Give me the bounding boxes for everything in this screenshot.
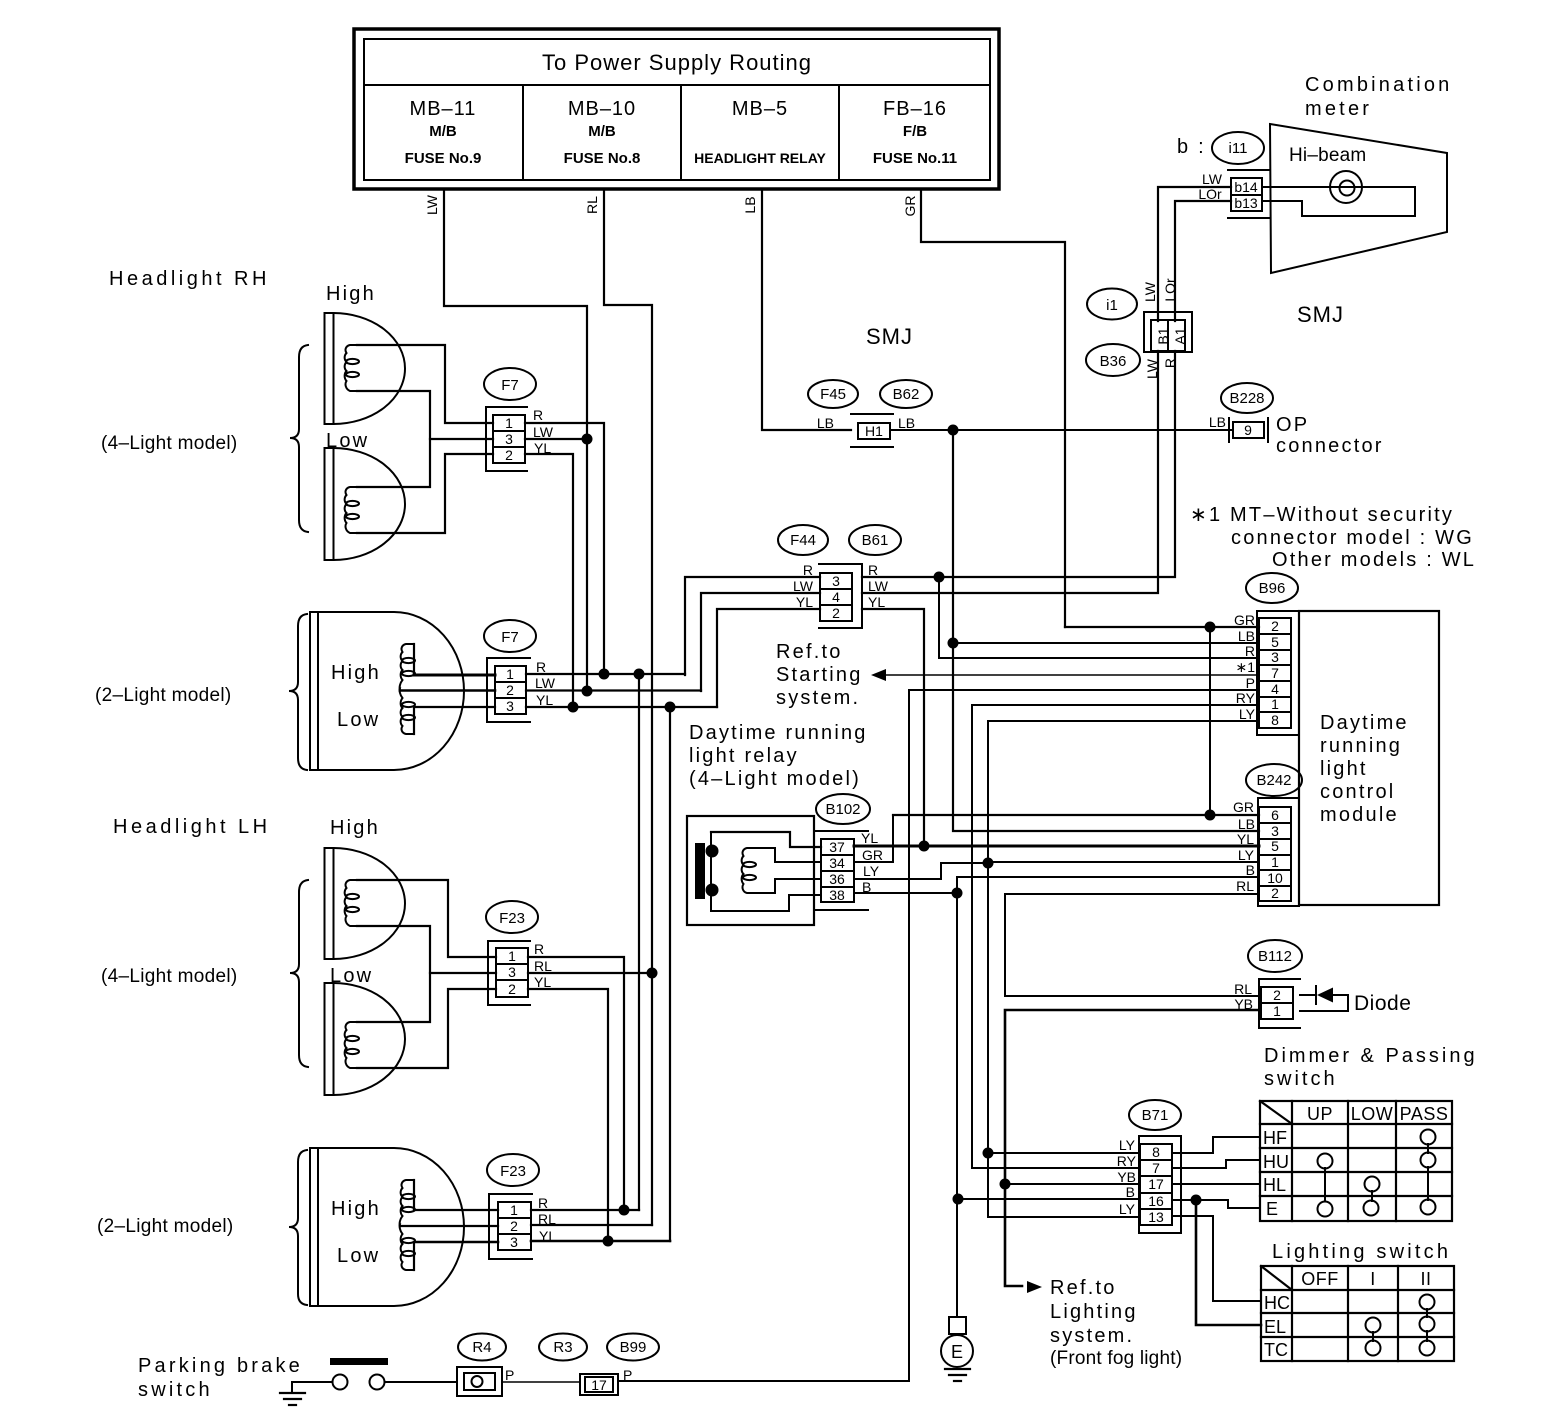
connector F23 housing (2-light LH) xyxy=(489,1194,532,1259)
svg-text:R: R xyxy=(1245,643,1255,659)
wire R4 to B99 xyxy=(502,1381,580,1383)
wire high top to F7 pin1 xyxy=(357,345,493,423)
svg-text:F7: F7 xyxy=(501,629,519,646)
svg-text:HC: HC xyxy=(1264,1293,1290,1313)
wire F7 pin3 LW to junction xyxy=(525,438,587,440)
svg-text:LY: LY xyxy=(1239,706,1256,722)
relay coil to pin 34 xyxy=(775,848,821,862)
headlight RH low reflector xyxy=(325,448,406,560)
svg-text:LW: LW xyxy=(1142,281,1158,302)
connector B99 box 17 xyxy=(580,1374,618,1395)
svg-text:Combination: Combination xyxy=(1305,74,1453,96)
svg-text:EL: EL xyxy=(1264,1317,1286,1337)
svg-text:OP: OP xyxy=(1276,414,1309,436)
svg-text:I: I xyxy=(1370,1269,1376,1289)
svg-text:4: 4 xyxy=(832,589,840,605)
svg-text:R4: R4 xyxy=(472,1339,491,1356)
svg-text:Low: Low xyxy=(337,709,380,731)
brace 4-light LH xyxy=(290,880,308,1067)
svg-text:B96: B96 xyxy=(1259,580,1286,597)
wire B net vertical xyxy=(956,877,958,1317)
svg-text:i11: i11 xyxy=(1229,140,1248,157)
junction LB node xyxy=(948,425,959,436)
svg-text:F45: F45 xyxy=(820,386,846,403)
svg-text:GR: GR xyxy=(902,196,918,217)
wire GR into B242-6 xyxy=(893,814,1259,816)
junction LY at B242-1 xyxy=(983,858,994,869)
svg-text:switch: switch xyxy=(1264,1068,1338,1090)
svg-text:R: R xyxy=(538,1195,548,1211)
diode loop xyxy=(1300,986,1348,1011)
svg-text:8: 8 xyxy=(1152,1144,1160,1160)
svg-text:LW: LW xyxy=(868,578,889,594)
svg-text:LY: LY xyxy=(1119,1137,1136,1153)
junction B at B71-16 xyxy=(953,1194,964,1205)
svg-text:switch: switch xyxy=(138,1379,213,1401)
svg-text:3: 3 xyxy=(832,573,840,589)
dimmer contact circles xyxy=(1318,1130,1436,1217)
svg-text:connector: connector xyxy=(1276,435,1384,457)
svg-text:2: 2 xyxy=(508,981,516,997)
svg-text:LOr: LOr xyxy=(1198,186,1222,202)
svg-text:PASS: PASS xyxy=(1400,1104,1449,1124)
connector B99 oval xyxy=(607,1334,659,1361)
svg-text:3: 3 xyxy=(508,964,516,980)
connector H1 xyxy=(851,414,893,447)
wire RY corner to B96 pin1 xyxy=(972,705,1259,1168)
wire F7 pin3 YL to F44 xyxy=(526,706,717,708)
svg-text:b13: b13 xyxy=(1234,195,1258,211)
svg-text:B36: B36 xyxy=(1100,353,1127,370)
svg-text:YB: YB xyxy=(1117,1169,1136,1185)
svg-text:HEADLIGHT RELAY: HEADLIGHT RELAY xyxy=(694,150,826,166)
junction YB at B71-17 xyxy=(1000,1179,1011,1190)
svg-text:(Front fog light): (Front fog light) xyxy=(1050,1348,1182,1369)
svg-text:SMJ: SMJ xyxy=(866,324,913,349)
relay coil xyxy=(742,848,775,893)
wire GR drop from FB-16 xyxy=(921,190,1065,627)
wire LY corner to B96 pin8 xyxy=(988,721,1259,1217)
svg-text:R3: R3 xyxy=(553,1339,572,1356)
svg-text:7: 7 xyxy=(1271,665,1279,681)
wire P to B96 pin4 (from parking brake) xyxy=(618,690,1259,1381)
svg-text:Ref.to: Ref.to xyxy=(776,641,843,663)
svg-text:High: High xyxy=(330,817,380,839)
connector R3 oval xyxy=(539,1334,587,1361)
svg-text:17: 17 xyxy=(1148,1176,1164,1192)
svg-text:6: 6 xyxy=(1271,807,1279,823)
svg-text:F23: F23 xyxy=(499,910,525,927)
wire B102-37 YL to B242-5 xyxy=(854,845,1259,848)
wire R left of F44 down to 2-light xyxy=(685,577,820,675)
wire F7 pin2 YL right then down xyxy=(525,454,573,707)
svg-text:LW: LW xyxy=(424,194,440,215)
svg-text:E: E xyxy=(951,1342,963,1362)
svg-text:2: 2 xyxy=(832,605,840,621)
svg-text:8: 8 xyxy=(1271,712,1279,728)
wire center tap to F7 pin2 xyxy=(400,689,495,692)
bulb RH high xyxy=(345,345,359,391)
wire F7 pin2 LW to F44 xyxy=(526,689,701,691)
wire YL right of B61 down to B102 xyxy=(862,609,924,846)
connector B61 oval xyxy=(849,525,901,555)
svg-text:16: 16 xyxy=(1148,1193,1164,1209)
svg-text:b14: b14 xyxy=(1234,179,1258,195)
svg-text:system.: system. xyxy=(1050,1325,1134,1347)
wire GR link B96/B242 xyxy=(1209,627,1211,815)
svg-text:B228: B228 xyxy=(1229,390,1264,407)
svg-text:(2–Light model): (2–Light model) xyxy=(97,1216,234,1237)
svg-text:LW: LW xyxy=(533,424,554,440)
headlight LH low reflector xyxy=(325,983,406,1095)
bulb LH 2-light high xyxy=(400,1180,415,1226)
svg-text:4: 4 xyxy=(1271,681,1279,697)
wire R below SMJ down to B61 level xyxy=(862,351,1175,577)
wire F23 pin3 YL to YL main xyxy=(531,1240,670,1243)
svg-text:meter: meter xyxy=(1305,98,1372,120)
junction RL at F23 pin3 xyxy=(647,968,658,979)
bulb LH low xyxy=(345,1022,359,1068)
wire LH high top to F23 pin1 xyxy=(357,880,496,957)
svg-text:M/B: M/B xyxy=(429,123,457,140)
brace 2-light LH xyxy=(289,1150,307,1305)
svg-text:MB–5: MB–5 xyxy=(732,98,788,120)
svg-text:system.: system. xyxy=(776,687,860,709)
connector F7 oval (4-light RH) xyxy=(484,368,536,400)
svg-text:control: control xyxy=(1320,781,1395,803)
svg-text:3: 3 xyxy=(506,698,514,714)
wire B71-8 to HF row xyxy=(1172,1137,1260,1153)
wire to R4 xyxy=(385,1381,457,1383)
connector F45 oval xyxy=(808,380,858,408)
wire b14 to lamp loop xyxy=(1262,187,1415,216)
svg-text:UP: UP xyxy=(1307,1104,1333,1124)
svg-text:module: module xyxy=(1320,804,1399,826)
wire B71-13 to HC row xyxy=(1172,1216,1261,1301)
wire *1 to B96 pin7 xyxy=(884,674,1259,676)
connector B36 oval xyxy=(1086,344,1140,376)
junction YL at 2-light pin3 xyxy=(568,702,579,713)
svg-text:1: 1 xyxy=(505,415,513,431)
svg-text:∗1: ∗1 xyxy=(1235,659,1255,675)
svg-text:5: 5 xyxy=(1271,634,1279,650)
svg-text:HF: HF xyxy=(1263,1128,1287,1148)
svg-text:F7: F7 xyxy=(501,377,519,394)
svg-text:F23: F23 xyxy=(500,1163,526,1180)
svg-text:LY: LY xyxy=(1119,1201,1136,1217)
wire LB into B96 pin5 xyxy=(953,642,1259,644)
contact circles lighting switch xyxy=(1420,1295,1435,1310)
svg-text:1: 1 xyxy=(510,1202,518,1218)
svg-text:Headlight RH: Headlight RH xyxy=(109,268,270,290)
svg-text:Other models : WL: Other models : WL xyxy=(1272,549,1476,571)
wire high bottom / low top series link xyxy=(357,391,430,487)
svg-text:∗1 MT–Without security: ∗1 MT–Without security xyxy=(1190,504,1454,526)
connector B228 oval xyxy=(1221,383,1273,413)
wire LW drop from MB-11 xyxy=(444,190,587,691)
wire center tap to F23 pin2 xyxy=(400,1225,498,1227)
svg-text:SMJ: SMJ xyxy=(1297,302,1344,327)
dimmer switch table xyxy=(1260,1101,1452,1221)
connector B96 oval xyxy=(1246,573,1298,603)
svg-text:5: 5 xyxy=(1271,838,1279,854)
headlight LH 2-light reflector xyxy=(310,1148,464,1306)
lighting contact circles xyxy=(1366,1295,1435,1356)
connector F7 housing (4-light RH) xyxy=(486,407,527,471)
switch lever bar xyxy=(330,1358,388,1365)
svg-text:RY: RY xyxy=(1117,1153,1137,1169)
wire B into B242-10 xyxy=(957,876,1259,878)
junction GR at B242 xyxy=(1205,810,1216,821)
svg-text:2: 2 xyxy=(1271,618,1279,634)
junction YL at LH 2-light pin3 xyxy=(603,1236,614,1247)
junction LY at B71-8 xyxy=(983,1148,994,1159)
svg-text:b :: b : xyxy=(1177,136,1206,158)
svg-text:3: 3 xyxy=(505,431,513,447)
svg-text:3: 3 xyxy=(510,1234,518,1250)
connector B102 cells xyxy=(814,831,868,910)
svg-text:MB–11: MB–11 xyxy=(410,98,477,120)
svg-text:LB: LB xyxy=(1238,816,1255,832)
relay contact to pin 38 xyxy=(711,895,821,911)
svg-text:M/B: M/B xyxy=(588,123,616,140)
svg-text:connector model : WG: connector model : WG xyxy=(1231,527,1474,549)
contact circles dimmer switch xyxy=(1421,1130,1436,1145)
junction R main xyxy=(634,669,645,680)
svg-text:Hi–beam: Hi–beam xyxy=(1289,145,1366,166)
svg-text:LB: LB xyxy=(742,196,758,213)
svg-text:RL: RL xyxy=(534,958,552,974)
connector F23 oval (4-light LH) xyxy=(486,901,538,933)
svg-text:B71: B71 xyxy=(1142,1107,1169,1124)
svg-text:FB–16: FB–16 xyxy=(883,98,947,120)
headlight RH high reflector xyxy=(325,313,406,424)
svg-text:Diode: Diode xyxy=(1354,992,1411,1015)
connector B112 housing xyxy=(1259,979,1300,1028)
svg-text:LOW: LOW xyxy=(1351,1104,1394,1124)
svg-text:1: 1 xyxy=(1273,1003,1281,1019)
svg-text:Dimmer & Passing: Dimmer & Passing xyxy=(1264,1045,1478,1067)
svg-text:LW: LW xyxy=(1202,171,1223,187)
wire B71-7 to HU row xyxy=(1172,1160,1260,1168)
svg-text:FUSE No.11: FUSE No.11 xyxy=(873,150,957,167)
junction R node to B96 xyxy=(934,572,945,583)
svg-text:1: 1 xyxy=(1271,854,1279,870)
bulb RH 2-light low xyxy=(400,688,415,734)
brace 2-light RH xyxy=(289,614,307,770)
wire F7 pin1 R to F44 xyxy=(526,673,685,675)
hi-beam lamp xyxy=(1330,171,1362,203)
connector i1 oval xyxy=(1087,289,1137,320)
relay contact to pin 37 xyxy=(711,832,821,847)
junction YL main xyxy=(665,702,676,713)
svg-text:P: P xyxy=(623,1367,632,1383)
svg-text:light relay: light relay xyxy=(689,745,799,767)
svg-text:LB: LB xyxy=(1238,628,1255,644)
ground at parking brake xyxy=(280,1393,305,1405)
connector B242 oval xyxy=(1246,764,1302,796)
svg-text:Headlight LH: Headlight LH xyxy=(113,816,271,838)
svg-text:2: 2 xyxy=(506,682,514,698)
svg-text:R: R xyxy=(868,562,878,578)
svg-text:2: 2 xyxy=(505,447,513,463)
svg-text:B1: B1 xyxy=(1155,327,1171,344)
switch contacts xyxy=(333,1375,348,1390)
svg-text:A1: A1 xyxy=(1172,327,1188,344)
svg-text:High: High xyxy=(331,1198,381,1220)
svg-text:TC: TC xyxy=(1264,1340,1288,1360)
svg-text:HU: HU xyxy=(1263,1152,1289,1172)
connector B71 oval xyxy=(1129,1100,1181,1130)
svg-text:(4–Light model): (4–Light model) xyxy=(101,966,238,987)
wire B102-38 B to ground net xyxy=(854,892,957,894)
headlight LH high reflector xyxy=(325,848,406,959)
connector F23 oval (2-light LH) xyxy=(487,1154,539,1186)
svg-text:RL: RL xyxy=(584,196,600,214)
wire B102-36 LY jog to LY main xyxy=(854,863,988,879)
junction R at 2-light pin1 xyxy=(599,669,610,680)
svg-text:R: R xyxy=(536,659,546,675)
svg-text:High: High xyxy=(326,283,376,305)
svg-text:GR: GR xyxy=(1233,799,1254,815)
connector R4 oval xyxy=(458,1334,506,1361)
svg-text:Daytime: Daytime xyxy=(1320,712,1409,734)
svg-text:B112: B112 xyxy=(1258,948,1292,965)
wire GR into B96-2 xyxy=(1065,626,1259,628)
wire R main down to LH xyxy=(638,674,640,1210)
svg-text:B99: B99 xyxy=(620,1339,647,1356)
brace 4-light RH xyxy=(290,345,308,532)
connector F23 housing (4-light LH) xyxy=(488,941,530,1005)
svg-text:10: 10 xyxy=(1267,870,1283,886)
junction B ground node xyxy=(952,888,963,899)
relay contact rail xyxy=(710,832,712,911)
wire F23 pin1 R to R main xyxy=(531,1209,639,1211)
svg-text:B61: B61 xyxy=(862,532,889,549)
junction node at B71-16 right xyxy=(1191,1195,1202,1206)
wire F23 pin2 RL to RL main xyxy=(531,1224,652,1226)
svg-text:FUSE No.8: FUSE No.8 xyxy=(564,150,641,167)
svg-text:light: light xyxy=(1320,758,1368,780)
svg-text:17: 17 xyxy=(591,1377,607,1393)
connector B242 housing xyxy=(1258,798,1299,906)
wire LH center tap to F23 pin3 xyxy=(430,972,496,974)
svg-text:9: 9 xyxy=(1244,422,1252,438)
wire F23 pin2 YL right then down xyxy=(528,989,608,1242)
junction LW at 2-light pin2 xyxy=(582,686,593,697)
svg-text:B62: B62 xyxy=(893,386,920,403)
connector B96 housing xyxy=(1257,611,1299,735)
svg-text:7: 7 xyxy=(1152,1160,1160,1176)
svg-text:GR: GR xyxy=(862,847,883,863)
svg-text:1: 1 xyxy=(508,948,516,964)
svg-text:YL: YL xyxy=(1237,831,1254,847)
wire YB B112-1 to B71 and arrow xyxy=(1005,1010,1259,1286)
svg-text:B: B xyxy=(1126,1184,1135,1200)
wire LOr to b13 xyxy=(1175,201,1231,321)
svg-text:Parking brake: Parking brake xyxy=(138,1355,303,1377)
svg-text:Starting: Starting xyxy=(776,664,863,686)
bulb RH 2-light high xyxy=(400,644,415,690)
connector housing F44/B61 xyxy=(819,564,862,628)
connector 9 box xyxy=(1229,418,1268,442)
svg-text:YL: YL xyxy=(534,974,551,990)
svg-text:running: running xyxy=(1320,735,1402,757)
svg-text:High: High xyxy=(331,662,381,684)
bulb RH low xyxy=(345,487,359,533)
svg-text:LOr: LOr xyxy=(1162,278,1178,302)
bulb LH 2-light low xyxy=(400,1224,415,1270)
svg-text:B242: B242 xyxy=(1256,772,1291,789)
wire LH high bottom / low top series link xyxy=(357,926,430,1022)
svg-text:LB: LB xyxy=(817,415,834,431)
wire F7 pin1 R right then down xyxy=(525,423,604,674)
wire LB drop from MB-5 xyxy=(762,190,851,430)
wire LW to b14 xyxy=(1158,187,1231,321)
svg-text:36: 36 xyxy=(829,871,845,887)
wire LW below SMJ down to B61 level xyxy=(862,351,1158,593)
svg-text:LB: LB xyxy=(898,415,915,431)
svg-text:B102: B102 xyxy=(825,801,860,818)
svg-text:LY: LY xyxy=(863,863,880,879)
svg-text:3: 3 xyxy=(1271,649,1279,665)
wire R branch to B96 pin3 xyxy=(939,577,1259,658)
svg-text:Low: Low xyxy=(337,1245,380,1267)
svg-text:FUSE No.9: FUSE No.9 xyxy=(405,150,482,167)
svg-text:B: B xyxy=(1246,862,1255,878)
svg-text:Ref.to: Ref.to xyxy=(1050,1277,1117,1299)
bulb stems 2-light LH xyxy=(413,1180,415,1270)
relay B102 box xyxy=(687,816,814,925)
lighting switch table xyxy=(1261,1266,1454,1361)
wire LB from H1 to B228 xyxy=(890,429,1232,431)
svg-text:YL: YL xyxy=(796,594,813,610)
relay contact armature bar xyxy=(695,843,705,899)
svg-text:R: R xyxy=(533,407,543,423)
svg-text:YL: YL xyxy=(536,692,553,708)
svg-text:To Power Supply Routing: To Power Supply Routing xyxy=(542,50,812,75)
wire YL main down to LH xyxy=(669,707,671,1241)
arrow to starting system xyxy=(871,669,886,681)
junction LW at F7 pin3 xyxy=(582,434,593,445)
svg-text:(4–Light model): (4–Light model) xyxy=(101,433,238,454)
wire B102-34 GR jog up to B242-6 line xyxy=(854,815,893,862)
bulb LH high xyxy=(345,880,359,926)
wire low stem to F23 pin3 xyxy=(414,1241,498,1244)
svg-text:E: E xyxy=(1266,1199,1278,1219)
svg-text:H1: H1 xyxy=(865,423,883,439)
connector R4 box xyxy=(457,1367,502,1396)
wire LW left of F44 down xyxy=(701,593,820,691)
svg-text:HL: HL xyxy=(1263,1175,1286,1195)
wire LH low bottom to F23 pin2 xyxy=(357,989,496,1068)
svg-text:YL: YL xyxy=(868,594,885,610)
connector F7 oval (2-light RH) xyxy=(484,620,536,652)
svg-text:R: R xyxy=(1162,358,1178,368)
svg-text:II: II xyxy=(1420,1269,1431,1289)
svg-text:2: 2 xyxy=(510,1218,518,1234)
svg-text:i1: i1 xyxy=(1106,297,1118,314)
svg-text:Lighting switch: Lighting switch xyxy=(1272,1241,1451,1263)
svg-text:F44: F44 xyxy=(790,532,816,549)
wire B71-16 to E row and EL xyxy=(1172,1199,1196,1201)
wire RL drop from MB-10 xyxy=(604,190,652,1225)
wire F23 pin3 RL to RL main xyxy=(528,972,652,974)
svg-text:1: 1 xyxy=(506,666,514,682)
svg-text:R: R xyxy=(803,562,813,578)
wire YL left of F44 down xyxy=(717,609,820,707)
svg-text:Lighting: Lighting xyxy=(1050,1301,1138,1323)
